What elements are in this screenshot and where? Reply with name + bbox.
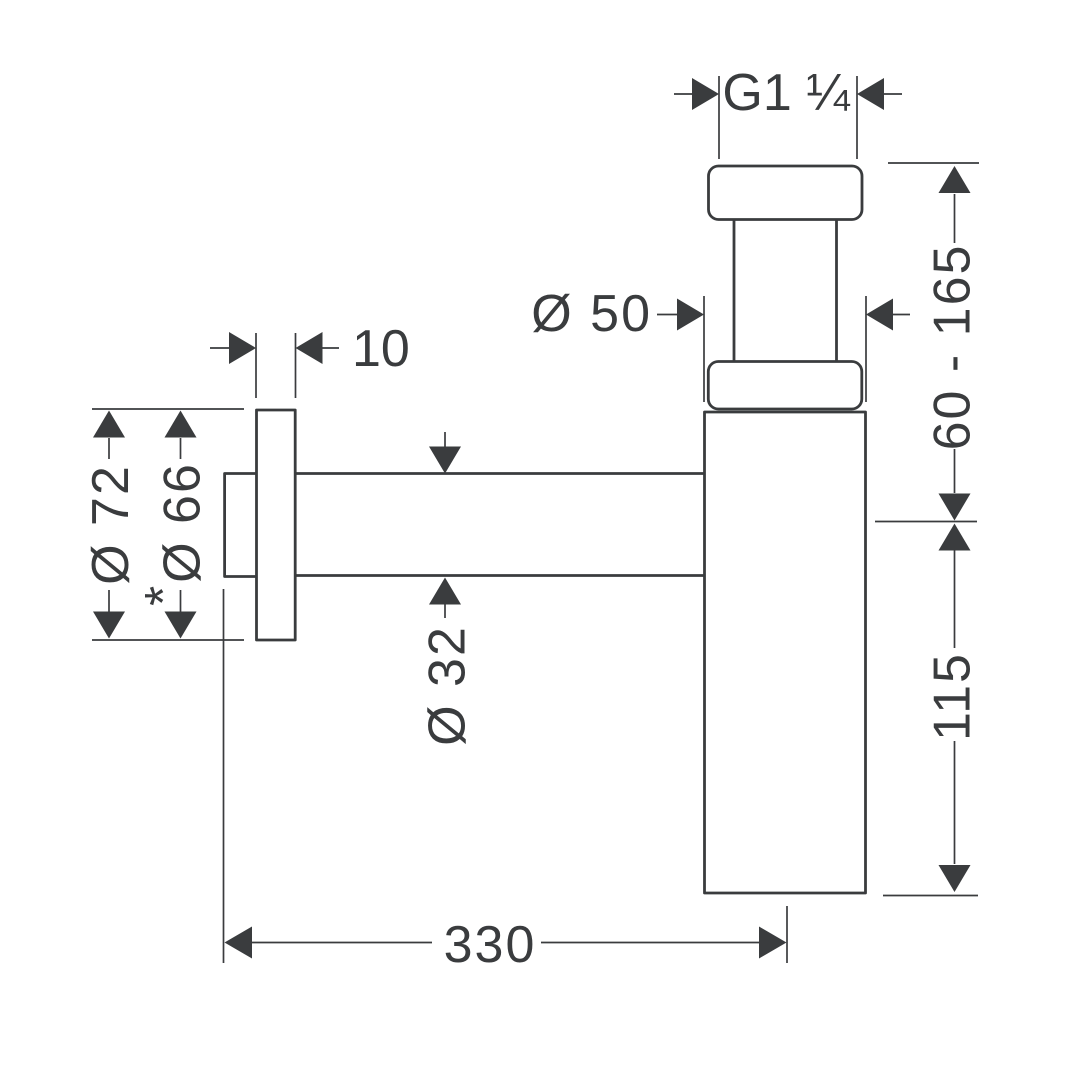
dimension D66 top arrow bbox=[165, 411, 197, 438]
waste pipe top edge bbox=[296, 472, 704, 475]
dimension D72 line upper bbox=[108, 438, 110, 459]
dimension 60-165 line lower bbox=[954, 449, 956, 493]
tailpiece pipe right edge bbox=[835, 220, 838, 362]
waste pipe bottom edge bbox=[296, 574, 704, 577]
lower cap nut bbox=[708, 362, 862, 410]
dimension D50 leader left bbox=[657, 314, 678, 316]
dimension 115 bottom arrow bbox=[939, 865, 971, 892]
dimension 115 top arrow bbox=[939, 524, 971, 551]
dimension 330 right arrow bbox=[759, 927, 787, 959]
dimension 10 arrow left bbox=[229, 332, 256, 364]
dimension D32 bottom leader bbox=[444, 604, 446, 618]
top cap nut bbox=[709, 166, 863, 220]
dimension D72 bottom extension line bbox=[92, 639, 244, 641]
dimension D50 extension line right bbox=[865, 296, 867, 402]
dimension G1 1/4 leader right bbox=[883, 93, 902, 95]
dimension G1 1/4 arrow left bbox=[692, 78, 719, 110]
dimension 115 bottom tick bbox=[883, 895, 978, 897]
dimension G1 1/4 extension line left bbox=[718, 76, 720, 159]
dimension D32 top leader bbox=[444, 432, 446, 447]
dimension 330 left extension line bbox=[223, 589, 225, 963]
dimension D50 arrow left bbox=[677, 299, 704, 331]
svg-text:Ø 66: Ø 66 bbox=[154, 462, 212, 583]
dimension 115 line upper bbox=[954, 550, 956, 648]
dimension D72 top extension line bbox=[92, 408, 244, 410]
dimension D72 top arrow bbox=[93, 411, 125, 438]
dimension D50 arrow right bbox=[866, 299, 893, 331]
dimension 330 left arrow bbox=[225, 927, 253, 959]
dimension 10 arrow right bbox=[296, 332, 323, 364]
dimension G1 1/4 extension line right bbox=[856, 76, 858, 159]
dimension D72 bottom arrow bbox=[93, 612, 125, 639]
svg-text:10: 10 bbox=[352, 320, 410, 378]
dimension 10 extension line right bbox=[295, 333, 297, 398]
dimension G1 1/4 leader left bbox=[674, 93, 693, 95]
dimension 330 right extension line bbox=[786, 906, 788, 963]
dimension 60-165 bottom tick bbox=[875, 521, 977, 523]
svg-text:60 - 165: 60 - 165 bbox=[924, 244, 982, 451]
trap body cylinder bbox=[705, 412, 866, 893]
svg-text:Ø 32: Ø 32 bbox=[419, 625, 477, 746]
svg-text:115: 115 bbox=[924, 652, 982, 741]
dimension D66 line upper bbox=[180, 438, 182, 459]
dimension 10 leader right bbox=[322, 347, 339, 349]
dimension D32 bottom arrow bbox=[429, 578, 461, 605]
wall hub bbox=[225, 474, 256, 577]
tailpiece pipe left edge bbox=[733, 220, 736, 362]
svg-text:Ø 50: Ø 50 bbox=[531, 285, 652, 343]
svg-text:G1 ¼: G1 ¼ bbox=[722, 64, 850, 122]
wall flange bbox=[257, 410, 296, 640]
dimension D50 extension line left bbox=[703, 296, 705, 402]
svg-text:330: 330 bbox=[444, 916, 537, 974]
dimension 60-165 top arrow bbox=[939, 166, 971, 193]
dimension D66 bottom arrow bbox=[165, 612, 197, 639]
dimension 330 line right bbox=[541, 942, 760, 944]
dimension D66 line lower bbox=[180, 590, 182, 612]
dimension D32 top arrow bbox=[429, 447, 461, 474]
dimension G1 1/4 arrow right bbox=[857, 78, 884, 110]
dimension D72 line lower bbox=[108, 590, 110, 612]
dimension 10 extension line left bbox=[255, 333, 257, 398]
svg-text:Ø 72: Ø 72 bbox=[82, 464, 140, 585]
svg-text:*: * bbox=[135, 586, 193, 606]
dimension 10 leader left bbox=[210, 347, 230, 349]
dimension D50 leader right bbox=[892, 314, 910, 316]
dimension 115 line lower bbox=[954, 741, 956, 864]
dimension 60-165 top tick bbox=[888, 162, 979, 164]
dimension 60-165 line upper bbox=[954, 194, 956, 243]
dimension 330 line left bbox=[251, 942, 432, 944]
dimension 60-165 bottom arrow bbox=[939, 494, 971, 521]
